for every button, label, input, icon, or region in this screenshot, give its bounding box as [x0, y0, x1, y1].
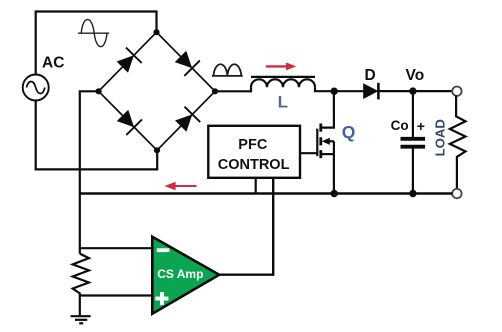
bridge diode D2 (top-right arm): [175, 51, 200, 76]
svg-text:L: L: [278, 92, 288, 111]
capacitor Co: [401, 91, 426, 193]
PFC controller U1 box: [208, 126, 300, 178]
node rail / capacitor junction: [409, 190, 416, 197]
node bridge right vertex: [212, 88, 218, 94]
svg-text:AC: AC: [42, 55, 64, 72]
svg-text:CONTROL: CONTROL: [218, 157, 290, 173]
svg-text:PFC: PFC: [238, 137, 268, 153]
wire node to diode D anode: [334, 90, 364, 92]
pin minus marker: [157, 248, 170, 252]
svg-text:Vo: Vo: [406, 67, 425, 84]
transistor Q1 body arrow: [322, 138, 330, 145]
node inductor/drain junction: [331, 88, 338, 95]
terminal output negative: [452, 189, 461, 198]
bridge diode D1 (left-top arm): [117, 48, 142, 73]
wire bridge left vertex down to sense resistor: [80, 91, 99, 253]
transistor Q1 (MOSFET): [317, 91, 334, 193]
wire inverting input: [80, 247, 152, 249]
svg-text:D: D: [365, 67, 376, 84]
bridge diode D4 (bottom-right arm): [175, 107, 200, 132]
node Vo: [409, 87, 416, 94]
terminal output positive: [452, 87, 461, 96]
node rail / source junction: [331, 190, 338, 197]
svg-text:CS Amp: CS Amp: [157, 267, 203, 281]
sine waveform symbol: [78, 19, 109, 46]
node bridge top vertex: [153, 29, 159, 35]
wire gate drive: [300, 152, 317, 154]
bridge diode D3 (left-bottom arm): [117, 110, 142, 135]
current arrow left (red): [164, 182, 196, 191]
svg-text:+: +: [417, 118, 425, 134]
wire non-inverting input: [80, 294, 152, 296]
load resistor: [450, 95, 466, 189]
wire Vo node to output terminal: [413, 90, 452, 92]
current arrow right (red): [266, 62, 297, 70]
AC source V1: [23, 75, 49, 101]
wire top rail (AC top to bridge top vertex): [36, 12, 157, 75]
wire bottom return rail: [80, 192, 453, 195]
wire op-amp output to PFC box: [219, 178, 273, 275]
wire AC bottom to bridge bottom vertex: [36, 101, 158, 170]
wire diode cathode to Vo node: [378, 90, 412, 92]
pin plus marker: [155, 292, 168, 305]
resistor Rs (current sense): [73, 254, 89, 316]
svg-text:Co: Co: [391, 118, 409, 133]
node bridge left vertex: [96, 88, 102, 94]
node bridge bottom vertex: [154, 147, 160, 153]
svg-text:LOAD: LOAD: [433, 119, 448, 156]
wire bridge right vertex to inductor: [215, 87, 251, 91]
inductor L: [251, 77, 315, 87]
rectified waveform symbol: [212, 64, 243, 76]
wire bridge diamond frame: [99, 32, 215, 150]
wire inductor to drain node: [315, 87, 334, 91]
ground: [71, 316, 91, 323]
op-amp U2 (CS Amp): [152, 237, 219, 314]
wire PFC box bottom to return rail: [255, 178, 257, 194]
diode D: [363, 83, 378, 100]
svg-text:Q: Q: [342, 122, 356, 142]
